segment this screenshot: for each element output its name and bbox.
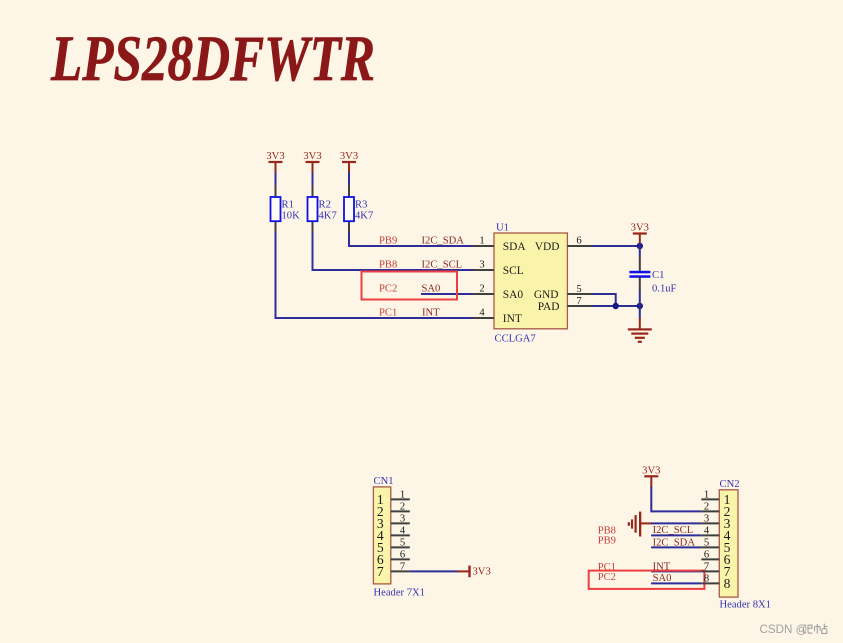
svg-text:PB8: PB8 xyxy=(379,259,397,270)
svg-text:5: 5 xyxy=(400,537,405,548)
svg-text:3V3: 3V3 xyxy=(266,151,284,162)
svg-text:CN1: CN1 xyxy=(374,476,394,487)
wire PAD pin 7 xyxy=(592,305,640,307)
svg-text:PC1: PC1 xyxy=(379,307,397,318)
svg-text:SCL: SCL xyxy=(503,265,524,277)
junction at PAD node xyxy=(613,303,619,309)
power 3V3 at VDD xyxy=(631,223,649,244)
svg-text:SA0: SA0 xyxy=(422,283,441,294)
CN1 pin 5 xyxy=(377,537,410,555)
CN2 pin 3 xyxy=(701,513,730,531)
wire 3V3 node down to C1 xyxy=(639,243,641,258)
svg-text:3V3: 3V3 xyxy=(473,567,491,578)
CN1 pin 6 xyxy=(377,549,410,567)
svg-text:6: 6 xyxy=(704,549,709,560)
svg-text:6: 6 xyxy=(400,549,405,560)
svg-text:3: 3 xyxy=(704,513,709,524)
svg-text:PC2: PC2 xyxy=(598,572,616,583)
svg-text:5: 5 xyxy=(704,537,709,548)
power 3V3 at R2 xyxy=(303,151,321,174)
pin 4 INT xyxy=(473,308,522,325)
CN1 pin 4 xyxy=(377,525,410,543)
wire R3 to SDA row xyxy=(349,233,473,247)
resistor R1 10K xyxy=(271,185,301,234)
capacitor C1 0.1uF xyxy=(629,257,676,294)
signal ground at CN2 pin 3 xyxy=(628,512,652,537)
svg-text:2: 2 xyxy=(479,284,484,295)
wire INT to CN2 pin 7 xyxy=(651,570,701,572)
svg-text:C1: C1 xyxy=(652,270,664,281)
svg-text:7: 7 xyxy=(704,561,709,572)
pin 1 SDA xyxy=(473,236,527,253)
svg-text:3V3: 3V3 xyxy=(303,151,321,162)
svg-text:SDA: SDA xyxy=(503,241,527,253)
CN2 pin 6 xyxy=(701,549,730,567)
svg-text:GND: GND xyxy=(534,289,559,301)
svg-text:PB9: PB9 xyxy=(379,235,397,246)
wire CN1 pin 7 to 3V3 xyxy=(410,570,458,572)
CN2 pin 2 xyxy=(701,501,730,519)
pin 3 SCL xyxy=(473,260,524,277)
svg-text:5: 5 xyxy=(576,284,581,295)
wire SA0 to pin 2 xyxy=(421,293,473,295)
CN1 pin 7 xyxy=(377,561,410,579)
CN1 pin 3 xyxy=(377,513,410,531)
svg-text:2: 2 xyxy=(704,501,709,512)
svg-text:R2: R2 xyxy=(319,200,331,211)
pin 7 PAD xyxy=(538,296,592,313)
pin 5 GND xyxy=(534,284,592,301)
junction at GND column xyxy=(637,303,643,309)
svg-text:U1: U1 xyxy=(496,223,509,234)
resistor R3 4K7 xyxy=(344,185,373,234)
wire 3V3 to R1 xyxy=(275,173,277,187)
svg-text:10K: 10K xyxy=(282,211,301,222)
CN1 pin 1 xyxy=(377,489,410,507)
svg-text:INT: INT xyxy=(503,313,522,325)
power 3V3 at R3 xyxy=(340,151,358,174)
wire R1 to INT row xyxy=(276,233,473,319)
svg-text:3: 3 xyxy=(400,513,405,524)
svg-text:3V3: 3V3 xyxy=(631,223,649,234)
svg-text:8: 8 xyxy=(704,573,709,584)
svg-text:3V3: 3V3 xyxy=(642,465,660,476)
wire C1 to ground xyxy=(639,291,641,319)
watermark CSDN xyxy=(760,623,828,636)
svg-text:4: 4 xyxy=(479,308,485,319)
wire GND pin 5 xyxy=(592,294,616,306)
svg-text:4K7: 4K7 xyxy=(319,211,337,222)
svg-text:3V3: 3V3 xyxy=(340,151,358,162)
svg-text:INT: INT xyxy=(422,307,440,318)
svg-text:1: 1 xyxy=(400,489,405,500)
junction at VDD node xyxy=(637,243,643,249)
svg-text:CSDN @: CSDN @ xyxy=(760,623,808,636)
svg-text:CN2: CN2 xyxy=(720,479,740,490)
pin 6 VDD xyxy=(535,236,592,253)
connector CN2 body xyxy=(719,479,771,611)
connector CN1 body xyxy=(373,476,425,598)
svg-text:R3: R3 xyxy=(355,200,367,211)
svg-text:0.1uF: 0.1uF xyxy=(652,283,677,294)
highlight box PC2 SA0 (CN2) xyxy=(589,571,705,589)
svg-text:PAD: PAD xyxy=(538,301,560,313)
svg-text:SA0: SA0 xyxy=(503,289,524,301)
svg-text:VDD: VDD xyxy=(535,241,560,253)
svg-text:Header 8X1: Header 8X1 xyxy=(720,600,771,611)
svg-text:LPS28DFWTR: LPS28DFWTR xyxy=(50,23,375,94)
svg-text:CCLGA7: CCLGA7 xyxy=(495,334,536,345)
svg-text:I2C_SDA: I2C_SDA xyxy=(422,235,465,246)
wire R2 to SCL row xyxy=(313,233,473,271)
svg-text:2: 2 xyxy=(400,501,405,512)
svg-text:6: 6 xyxy=(576,236,581,247)
CN1 pin 2 xyxy=(377,501,410,519)
resistor R2 4K7 xyxy=(308,185,337,234)
power 3V3 right-facing at CN1 xyxy=(457,566,491,578)
CN2 pin 5 xyxy=(701,537,730,555)
svg-text:4: 4 xyxy=(400,525,406,536)
svg-text:1: 1 xyxy=(479,236,484,247)
svg-text:7: 7 xyxy=(576,296,581,307)
CN2 pin 4 xyxy=(701,525,730,543)
svg-text:7: 7 xyxy=(400,561,405,572)
svg-text:PC2: PC2 xyxy=(379,283,397,294)
wire I2C_SDA to CN2 pin 5 xyxy=(651,546,701,548)
wire 3V3 to CN2 pin 2 xyxy=(651,487,701,512)
CN2 pin 1 xyxy=(701,489,730,507)
svg-text:PB9: PB9 xyxy=(598,536,616,547)
wire 3V3 to R3 xyxy=(348,173,350,187)
svg-text:4: 4 xyxy=(704,525,710,536)
svg-text:R1: R1 xyxy=(282,200,294,211)
pin 2 SA0 xyxy=(473,284,524,301)
wire VDD to 3V3 xyxy=(592,245,640,247)
power 3V3 at CN2 xyxy=(642,465,660,487)
ground GND xyxy=(628,318,652,343)
highlight box PC2 SA0 row xyxy=(362,272,458,300)
CN2 pin 8 xyxy=(701,573,730,591)
svg-text:I2C_SCL: I2C_SCL xyxy=(422,259,463,270)
wire signal ground to CN2 pin 3 xyxy=(651,522,701,524)
svg-text:Header 7X1: Header 7X1 xyxy=(374,587,425,598)
IC U1 body xyxy=(494,223,567,345)
CN2 pin 7 xyxy=(701,561,730,579)
svg-text:8: 8 xyxy=(724,576,731,591)
wire SA0 to CN2 pin 8 xyxy=(651,582,701,584)
wire I2C_SCL to CN2 pin 4 xyxy=(651,534,701,536)
svg-text:3: 3 xyxy=(479,260,484,271)
power 3V3 at R1 xyxy=(266,151,284,174)
wire 3V3 to R2 xyxy=(312,173,314,187)
svg-text:7: 7 xyxy=(377,564,384,579)
svg-text:4K7: 4K7 xyxy=(355,211,373,222)
svg-text:1: 1 xyxy=(704,489,709,500)
